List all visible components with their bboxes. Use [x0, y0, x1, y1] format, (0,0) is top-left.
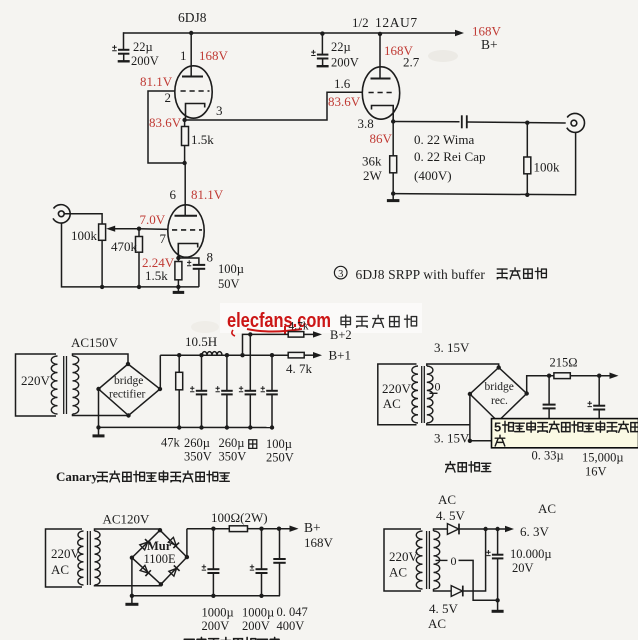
wire T4 top to D5 — [434, 529, 448, 531]
svg-text:bridge: bridge — [485, 381, 514, 393]
svg-text:22µ: 22µ — [133, 40, 153, 54]
svg-text:6DJ8 SRPP with buffer: 6DJ8 SRPP with buffer — [356, 267, 486, 282]
wire rail to C1 — [123, 32, 125, 49]
wire to R2 — [177, 258, 179, 262]
triode V2 1/2 12AU7 envelope — [362, 67, 399, 119]
svg-text:1100E: 1100E — [144, 552, 177, 566]
svg-text:1/2: 1/2 — [352, 15, 369, 30]
svg-text:200V: 200V — [331, 56, 359, 70]
svg-text:350V: 350V — [219, 450, 247, 464]
svg-text:400V: 400V — [277, 619, 305, 633]
wire to R3 — [138, 229, 140, 237]
svg-text:Mur: Mur — [147, 539, 172, 553]
svg-text:0. 047: 0. 047 — [277, 605, 308, 619]
svg-text:2: 2 — [165, 90, 172, 105]
bridge rectifier BR2 — [468, 365, 529, 421]
svg-text:5: 5 — [494, 420, 501, 435]
wire R3 to rail — [138, 252, 140, 287]
junction C5 260µ 350V/rail — [199, 425, 203, 429]
wire D6 up to node — [463, 529, 486, 591]
svg-text:81.1V: 81.1V — [191, 187, 224, 202]
capacitor C13 0.047µ 400V — [273, 559, 285, 596]
svg-text:AC: AC — [51, 562, 69, 577]
label tooltip 款较常用的电子管前级制作 (CJK drawn as strokes) — [503, 421, 638, 432]
svg-text:3: 3 — [338, 269, 343, 280]
junction C13 top — [277, 527, 281, 531]
svg-text:50V: 50V — [218, 277, 240, 291]
wire wiper to V1b grid — [139, 228, 168, 231]
junction C12/rail — [259, 594, 263, 598]
triode V1b 6DJ8 lower envelope — [168, 205, 204, 257]
svg-text:elecfans.com: elecfans.com — [227, 309, 331, 332]
wire to C9 — [548, 376, 550, 405]
svg-text:bridge: bridge — [114, 375, 143, 387]
junction rail/B+2 drop — [240, 353, 244, 357]
transformer T2 core — [422, 366, 425, 423]
T4 center tap 0 — [436, 559, 448, 561]
wire V1a grid feedback loop — [148, 91, 185, 163]
wire BR3 plus up — [186, 529, 188, 557]
svg-text:100µ: 100µ — [218, 262, 244, 276]
ground supply — [93, 427, 105, 436]
V2 cathode — [372, 106, 394, 121]
capacitor C3 100µ 50V — [187, 260, 205, 287]
transformer T3 core — [88, 531, 91, 585]
junction C8 100µ 250V/rail — [270, 425, 274, 429]
capacitor C5 260µ 350V — [190, 386, 207, 427]
svg-text:200V: 200V — [131, 54, 159, 68]
wire B+2 branch — [243, 334, 289, 355]
svg-text:AC: AC — [383, 396, 401, 411]
svg-text:168V: 168V — [199, 48, 229, 63]
capacitor C7 260µ — [239, 386, 256, 427]
svg-text:6: 6 — [170, 187, 177, 202]
capacitor C9 0.33µ — [543, 405, 556, 419]
wire T1 primary loop — [16, 354, 57, 416]
junction C4/R5 — [525, 121, 529, 125]
junction BR1/ground rail — [96, 425, 100, 429]
svg-text:83.6V: 83.6V — [328, 94, 361, 109]
junction node A — [182, 161, 186, 165]
junction rail/V2 plate — [378, 32, 382, 36]
wire BR1 plus up — [159, 355, 161, 389]
V1a plate — [182, 76, 203, 78]
wire to C13 — [279, 529, 281, 559]
transformer T1 secondary winding — [73, 356, 79, 414]
svg-text:350V: 350V — [184, 450, 212, 464]
wire B+2 arrow — [304, 331, 322, 337]
wire node A to V1b plate lead — [184, 163, 186, 216]
wire to R6 — [178, 355, 180, 372]
capacitor C11 1000µ 200V — [202, 565, 220, 596]
wire T2 primary loop — [378, 364, 417, 425]
svg-text:47k: 47k — [161, 436, 181, 450]
svg-text:81.1V: 81.1V — [140, 74, 173, 89]
svg-text:4.7k: 4.7k — [289, 321, 309, 333]
transformer T4 primary winding — [416, 531, 422, 589]
wire BR2 plus to R9 — [527, 376, 554, 394]
wire rail to C8 100µ — [271, 355, 273, 390]
bridge rectifier BR1 — [96, 362, 162, 418]
svg-text:rec.: rec. — [491, 395, 508, 407]
ground filament — [492, 600, 504, 611]
svg-text:100k: 100k — [71, 228, 98, 243]
resistor R4 36k 2W — [390, 156, 397, 173]
label caption 前级高压及灯丝电源部分 (CJK drawn as strokes) — [98, 471, 230, 482]
ground output network — [387, 194, 400, 201]
resistor R7 4.7k (B+2) — [288, 332, 304, 338]
junction C7 260µ/rail — [248, 425, 252, 429]
wire C4 to J2 — [467, 122, 566, 123]
svg-text:2.7: 2.7 — [403, 55, 420, 70]
transformer T4 secondary winding — [434, 531, 440, 589]
wire to R1 — [184, 120, 186, 127]
svg-text:1: 1 — [180, 48, 187, 63]
V1b plate — [175, 215, 198, 217]
label clipped bottom caption (CJK drawn as strokes) — [184, 637, 279, 640]
junction C12 top — [259, 527, 263, 531]
triode V1a 6DJ8 upper envelope — [175, 66, 212, 118]
resistor R10 100Ω 2W — [229, 526, 247, 532]
svg-text:7: 7 — [160, 231, 167, 246]
svg-text:200V: 200V — [242, 619, 270, 633]
watermark swoosh — [247, 329, 302, 332]
label circled 3 — [334, 266, 347, 280]
label watermark 电子发烧友 (CJK drawn as strokes) — [341, 315, 417, 327]
input jack J1 (RCA) — [53, 205, 70, 223]
wire B+1 rail — [160, 354, 288, 356]
transformer T3 primary winding — [78, 531, 84, 585]
svg-text:6DJ8: 6DJ8 — [178, 10, 207, 25]
wire to C11 — [212, 529, 214, 569]
junction R5/rail — [525, 193, 529, 197]
transformer T1 core — [64, 356, 67, 414]
resistor R5 100k — [524, 157, 531, 174]
wire pot to rail — [101, 240, 103, 287]
wire BR2 minus down — [469, 394, 471, 441]
svg-text:4. 5V: 4. 5V — [429, 601, 459, 616]
resistor R2 1.5k — [175, 262, 182, 280]
bridge rectifier BR3 Mur 1100E — [130, 528, 189, 587]
wire cathode to C4 — [393, 121, 459, 123]
wire T3 secondary top to BR3 — [95, 529, 161, 531]
V2 grid (dashed) — [369, 92, 396, 94]
junction R6/rail — [177, 425, 181, 429]
resistor R3 470k — [136, 237, 143, 253]
resistor R6 47k — [176, 372, 183, 390]
wire to R5 — [526, 123, 528, 157]
junction rail/R6 — [177, 353, 181, 357]
svg-text:86V: 86V — [370, 131, 393, 146]
watermark elecfans.com — [220, 303, 422, 333]
svg-text:1000µ: 1000µ — [242, 606, 274, 620]
transformer T2 primary winding — [412, 366, 418, 423]
wire to C14 — [497, 529, 499, 555]
svg-text:15,000µ: 15,000µ — [582, 451, 624, 465]
wire cathode to C3 — [178, 258, 199, 265]
junction C10 — [597, 374, 601, 378]
svg-text:260µ: 260µ — [219, 436, 245, 450]
wire BR2 minus to box — [470, 440, 497, 442]
wire B+1 arrow — [304, 352, 322, 358]
svg-text:rectifier: rectifier — [109, 389, 146, 401]
transformer T4 core — [427, 531, 430, 589]
junction wiper/R3 — [137, 227, 141, 231]
svg-text:AC: AC — [389, 565, 407, 580]
svg-text:220V: 220V — [51, 546, 81, 561]
tooltip box — [492, 419, 638, 448]
svg-text:215Ω: 215Ω — [550, 356, 578, 370]
V1b grid (dashed) — [172, 229, 202, 231]
svg-text:AC150V: AC150V — [71, 335, 119, 350]
resistor R8 4.7k (B+1) — [288, 352, 304, 358]
junction R4/ground — [391, 191, 395, 195]
potentiometer VR1 100k — [99, 224, 106, 240]
junction C11 top — [211, 527, 215, 531]
wire V1a plate lead — [190, 33, 192, 77]
diode D3 (L to B) — [140, 565, 151, 576]
diode D6 — [451, 586, 463, 597]
capacitor C12 1000µ 200V — [250, 565, 268, 596]
wire BR1 minus down — [98, 389, 100, 427]
svg-text:0: 0 — [451, 554, 457, 568]
capacitor C6 260µ 350V — [216, 386, 233, 427]
wire R1 to node — [184, 146, 186, 164]
junction C9 — [547, 374, 551, 378]
svg-text:3.8: 3.8 — [358, 116, 374, 131]
svg-text:0: 0 — [435, 380, 441, 394]
svg-text:2W: 2W — [363, 168, 383, 183]
wire J2 shield to bottom rail — [393, 133, 575, 195]
label caption 灯丝部分 (CJK drawn as strokes) — [446, 462, 491, 473]
diode D5 — [447, 524, 459, 535]
svg-text:4. 5V: 4. 5V — [436, 508, 466, 523]
wire V2 plate lead — [379, 34, 381, 79]
svg-text:Canary: Canary — [56, 469, 98, 484]
wire rail to C5 260µ — [201, 355, 203, 390]
wire J1 ground / bottom rail — [62, 223, 199, 287]
capacitor C2 22µ 200V — [311, 50, 328, 66]
resistor R1 1.5k — [182, 127, 189, 146]
svg-text:0. 22 Rei Cap: 0. 22 Rei Cap — [414, 149, 486, 164]
transformer T2 secondary winding — [427, 366, 433, 423]
svg-text:12AU7: 12AU7 — [375, 15, 418, 30]
wire T1 secondary top to BR1 — [73, 354, 129, 364]
wire to C10 — [598, 376, 600, 406]
wire to C12 — [261, 529, 263, 569]
wire T2 secondary top to BR2 — [427, 364, 499, 368]
svg-text:36k: 36k — [362, 154, 382, 169]
diode D4 (B to R) — [168, 565, 179, 576]
wire V1a cathode to V2 grid — [185, 92, 363, 120]
V1a cathode — [186, 104, 205, 119]
svg-text:AC: AC — [438, 492, 456, 507]
wire B+ rail left — [187, 528, 229, 530]
svg-text:3. 15V: 3. 15V — [434, 431, 470, 446]
V2 plate — [371, 78, 391, 80]
junction rail/V1 plate — [189, 31, 193, 35]
junction rail/C6 — [225, 353, 229, 357]
wire J1 to pot top — [64, 214, 102, 224]
svg-text:168V: 168V — [304, 535, 334, 550]
capacitor C1 22µ 200V — [112, 45, 130, 61]
wire 6.3V arrow — [486, 526, 514, 532]
junction V1b cathode — [176, 256, 180, 260]
junction D5/D6 — [483, 527, 487, 531]
svg-text:260µ: 260µ — [184, 436, 210, 450]
label caption 线路部分 (CJK drawn as strokes) — [497, 268, 546, 279]
wire B+ top rail with arrow — [124, 30, 465, 36]
capacitor C4 0.22µ coupling — [462, 115, 467, 128]
V1a grid (dashed) — [181, 90, 210, 92]
svg-text:7.0V: 7.0V — [140, 212, 166, 227]
junction BR2 minus — [468, 439, 472, 443]
resistor R9 215Ω — [554, 373, 570, 379]
wire R6 to rail — [178, 390, 180, 428]
svg-text:22µ: 22µ — [331, 40, 351, 54]
svg-text:250V: 250V — [266, 451, 294, 465]
svg-text:0. 22 Wima: 0. 22 Wima — [414, 132, 474, 147]
junction pot/rail — [100, 285, 104, 289]
svg-text:AC: AC — [428, 616, 446, 631]
wire R2 to rail — [177, 280, 179, 287]
wire ground rail bottom-left — [132, 595, 280, 597]
ground supply 2 — [125, 596, 138, 605]
wire C7 riser — [249, 334, 251, 390]
svg-text:B+2: B+2 — [330, 328, 352, 342]
junction rail/C2 — [320, 31, 324, 35]
pot wiper arrow — [106, 226, 139, 232]
junction B+2/C7 — [248, 332, 252, 336]
svg-text:B+1: B+1 — [329, 348, 352, 363]
svg-text:470k: 470k — [111, 239, 138, 254]
svg-text:8: 8 — [207, 250, 214, 265]
output jack J2 (RCA) — [567, 113, 585, 132]
ground top section — [173, 287, 185, 293]
svg-text:10.000µ: 10.000µ — [510, 547, 552, 561]
svg-text:220V: 220V — [382, 381, 412, 396]
V1b cathode — [178, 244, 197, 258]
svg-text:16V: 16V — [585, 465, 607, 479]
wire T4 bottom to D6 — [434, 589, 452, 591]
svg-text:6. 3V: 6. 3V — [520, 524, 550, 539]
svg-text:0. 33µ: 0. 33µ — [532, 449, 564, 463]
svg-text:B+: B+ — [481, 37, 498, 52]
wire filament out arrow — [570, 373, 618, 379]
svg-text:220V: 220V — [21, 373, 51, 388]
wire T2 secondary bottom to BR2 — [427, 423, 470, 425]
svg-text:3. 15V: 3. 15V — [434, 340, 470, 355]
wire BR3 minus down — [131, 558, 133, 596]
wire D5 to node — [459, 528, 486, 530]
svg-text:1.5k: 1.5k — [145, 268, 168, 283]
diode D2 (T to R) — [168, 537, 179, 548]
wire filter ground rail — [99, 426, 273, 428]
svg-text:200V: 200V — [202, 619, 230, 633]
svg-text:B+: B+ — [304, 520, 321, 535]
wire T3 primary loop — [46, 529, 83, 587]
wire R10 to C12 — [248, 528, 263, 530]
transformer T3 secondary winding — [95, 531, 101, 585]
wire R5 to rail — [526, 174, 528, 195]
junction C14/common — [495, 598, 499, 602]
inductor L1 10.5H — [202, 352, 222, 356]
svg-text:100µ: 100µ — [266, 437, 292, 451]
svg-text:10.5H: 10.5H — [185, 334, 217, 349]
junction C14 top — [495, 527, 499, 531]
T2 center tap 0 — [430, 392, 438, 394]
wire center tap to common — [459, 560, 498, 600]
svg-text:1.6: 1.6 — [334, 76, 351, 91]
wire T3 secondary bottom to BR3 — [95, 584, 161, 586]
svg-text:AC: AC — [538, 501, 556, 516]
wire to R4 — [392, 122, 394, 156]
wire rail to C6 260µ — [226, 355, 228, 390]
junction R3/rail — [137, 285, 141, 289]
wire T1 secondary bottom to BR1 — [73, 414, 129, 416]
junction rail/C8 — [270, 353, 274, 357]
capacitor C10 15,000µ 16V — [588, 401, 606, 419]
svg-text:100k: 100k — [534, 160, 561, 175]
svg-text:83.6V: 83.6V — [149, 115, 182, 130]
svg-text:1000µ: 1000µ — [202, 606, 234, 620]
svg-text:(400V): (400V) — [414, 168, 452, 183]
svg-text:1.5k: 1.5k — [191, 132, 214, 147]
transformer T1 primary winding — [51, 356, 57, 414]
junction C11/rail — [211, 594, 215, 598]
junction BR3/ground rail — [130, 594, 134, 598]
svg-text:4. 7k: 4. 7k — [286, 361, 313, 376]
wire T4 primary loop — [384, 529, 421, 591]
svg-text:AC120V: AC120V — [103, 512, 151, 527]
label tooltip 约 (CJK drawn as strokes) — [495, 435, 505, 446]
svg-text:20V: 20V — [512, 561, 534, 575]
svg-text:100Ω(2W): 100Ω(2W) — [211, 510, 268, 525]
junction V1a cathode node — [182, 118, 186, 122]
capacitor C8 100µ 250V — [261, 386, 278, 427]
svg-text:220V: 220V — [389, 549, 419, 564]
junction R2/rail — [176, 285, 180, 289]
wire R4 to rail — [392, 173, 394, 194]
junction V2 cathode — [391, 119, 395, 123]
wire B+ arrow — [262, 526, 299, 532]
diode D1 (L to T) — [139, 539, 150, 550]
svg-text:3: 3 — [216, 103, 223, 118]
capacitor C14 10,000µ 20V — [486, 550, 503, 600]
wire rail to C2 — [321, 34, 323, 55]
junction C6 260µ 350V/rail — [225, 425, 229, 429]
junction rail/C5 — [199, 353, 203, 357]
label label 各 (CJK drawn as strokes) — [249, 440, 257, 449]
